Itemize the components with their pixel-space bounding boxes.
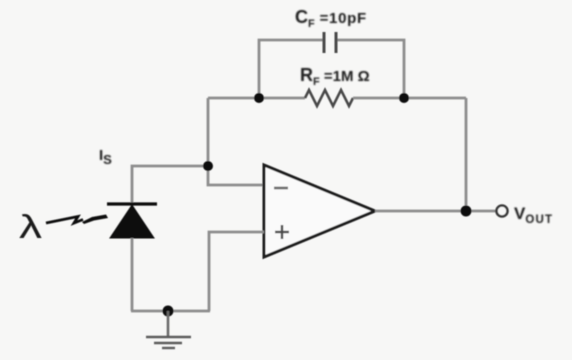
node junction ground tap — [163, 306, 174, 317]
wire top capacitor branch right — [336, 40, 404, 98]
node junction cap-right on resistor rail — [399, 93, 409, 103]
photodiode D1 cathode bar — [107, 202, 157, 205]
svg-text:RF =1M Ω: RF =1M Ω — [300, 65, 370, 88]
svg-text:CF =10pF: CF =10pF — [295, 7, 367, 30]
output terminal circle — [497, 206, 508, 217]
op-amp U1 — [264, 165, 375, 257]
wire photodiode to inverting node — [132, 166, 208, 204]
svg-text:λ: λ — [19, 208, 43, 245]
wire op-amp output — [375, 210, 496, 213]
node junction cap-left on resistor rail — [254, 93, 264, 103]
wire ground stub — [167, 311, 170, 336]
op-amp minus sign — [274, 187, 288, 190]
capacitor C_F plates — [324, 32, 336, 53]
wire top capacitor branch left — [259, 40, 324, 98]
wire photodiode anode down — [131, 238, 134, 311]
light arrow head — [82, 215, 108, 225]
wire bottom rail — [131, 310, 210, 313]
photodiode D1 triangle — [110, 205, 154, 238]
node junction output — [461, 206, 472, 217]
light arrow squiggle — [46, 217, 83, 224]
wire feedback resistor rail — [208, 97, 305, 100]
wire right feedback vertical — [465, 98, 468, 211]
resistor R_F — [305, 90, 353, 106]
wire resistor to right rail — [353, 97, 466, 100]
wire left feedback vertical to inverting input — [208, 98, 264, 185]
node junction inverting input — [203, 161, 213, 171]
op-amp plus sign — [275, 225, 289, 239]
ground — [146, 337, 191, 348]
wire non-inverting input — [209, 232, 264, 311]
